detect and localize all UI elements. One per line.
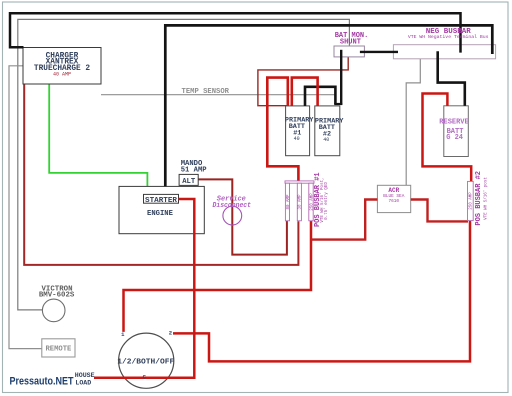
box: primary battery 1	[286, 106, 310, 156]
svg-text:BMV-602S: BMV-602S	[39, 292, 75, 300]
wire: ACR right to pos busbar 2 fuse (red)	[411, 200, 468, 222]
wire: temp sensor (gray)	[101, 94, 336, 96]
label: primary battery 1	[285, 116, 314, 137]
wire: switch terminal 2 to pos busbar 2 (red)	[173, 221, 470, 362]
wire: neg busbar to reserve battery negative (black)	[438, 51, 465, 106]
wire: shunt to battery 2 negative post (black)	[340, 50, 342, 105]
svg-text:SHUNT: SHUNT	[340, 38, 361, 46]
label: primary battery 2	[315, 117, 344, 138]
svg-text:HOUSE: HOUSE	[75, 372, 95, 379]
wire: switch terminal 1 to 250A fuse (red)	[124, 221, 312, 332]
fuse F3 250 AMP	[309, 183, 313, 221]
svg-text:7610: 7610	[389, 199, 400, 204]
svg-text:LOAD: LOAD	[75, 379, 91, 386]
fuse F1 80 AMP	[285, 183, 289, 221]
svg-text:250 AMP: 250 AMP	[469, 192, 473, 210]
box: reserve battery	[444, 106, 469, 157]
label: reserve battery	[439, 118, 468, 142]
wire: charger positive to 30A fuse (dark red)	[24, 84, 298, 265]
VICTRON monitor circle	[42, 299, 65, 322]
box: engine	[119, 186, 204, 233]
svg-text:ACR: ACR	[388, 187, 399, 194]
svg-text:1: 1	[121, 331, 125, 338]
wire: shunt to neg busbar (black)	[360, 51, 398, 53]
svg-text:40: 40	[323, 137, 329, 143]
wire: charger to REMOTE panel (gray)	[9, 66, 42, 349]
svg-text:30 AMP: 30 AMP	[299, 194, 303, 210]
label: charger	[34, 52, 90, 73]
wire: neg busbar to ACR (gray)	[406, 53, 420, 185]
wire: shunt sense to battery post (thin dark red)	[258, 57, 348, 106]
svg-text:250 AMP: 250 AMP	[310, 193, 314, 211]
svg-text:POS BUSBAR #2: POS BUSBAR #2	[475, 171, 483, 226]
box: primary battery 2	[315, 106, 340, 156]
wire: shunt sense to VICTRON monitor (gray)	[18, 19, 350, 310]
svg-text:51 AMP: 51 AMP	[181, 166, 208, 174]
box: alternator ALT	[179, 174, 198, 185]
wire: engine ground to neg busbar (black)	[165, 25, 492, 186]
svg-text:40: 40	[294, 136, 300, 142]
svg-text:ALT: ALT	[182, 178, 196, 186]
service disconnect circle	[223, 206, 242, 225]
op switch circle 1/2/BOTH/OFF	[119, 333, 174, 388]
wire: battery 1 positive loop (red)	[267, 78, 298, 181]
wire: main negative bus top (black)	[10, 13, 461, 52]
svg-text:RESERVE: RESERVE	[439, 118, 468, 126]
svg-text:ENGINE: ENGINE	[147, 210, 174, 218]
box: REMOTE panel	[42, 339, 75, 357]
svg-text:TEMP SENSOR: TEMP SENSOR	[182, 88, 230, 96]
wire: battery 1 to battery 2 negative jumper (black)	[305, 87, 335, 106]
svg-text:80 AMP: 80 AMP	[287, 194, 291, 210]
box: negative busbar	[393, 45, 495, 59]
wire: charger to engine block (green)	[49, 84, 147, 187]
node: battery 2 negative post joint	[334, 103, 342, 105]
wire: battery 2 positive jumper (red)	[292, 78, 318, 106]
box: charger CHARGER XANTREX TRUECHARGE 2	[23, 48, 101, 85]
svg-text:2: 2	[169, 329, 173, 336]
fuse F4 250 AMP pos busbar 2	[468, 181, 474, 220]
svg-text:G 24: G 24	[446, 134, 463, 142]
box: ACR Blue Sea	[377, 185, 410, 212]
svg-text:Disconnect: Disconnect	[213, 202, 252, 210]
box: battery monitor shunt	[334, 46, 364, 57]
fuse block: pos busbar 1 top bar	[285, 181, 314, 183]
svg-text:REMOTE: REMOTE	[45, 346, 72, 354]
svg-text:VTE WH 5/16' post: VTE WH 5/16' post	[483, 177, 488, 220]
wire: alternator to 80A fuse (dark red)	[198, 179, 287, 254]
box: starter	[144, 194, 179, 203]
svg-text:0.75' entry QED: 0.75' entry QED	[324, 182, 329, 220]
svg-text:1/2/BOTH/OFF: 1/2/BOTH/OFF	[117, 358, 174, 366]
wire: starter positive to switch common run (red)	[94, 199, 194, 378]
wire: reserve battery positive to fuse 2 (red)	[423, 94, 472, 182]
wire: branch to ACR left (red)	[311, 200, 377, 240]
svg-text:40 AMP: 40 AMP	[53, 72, 71, 78]
svg-text:STARTER: STARTER	[145, 197, 178, 205]
svg-text:Pressauto.NET: Pressauto.NET	[10, 376, 74, 388]
svg-text:VTE WH Negative Terminal Bus: VTE WH Negative Terminal Bus	[408, 34, 489, 40]
fuse F2 30 AMP	[297, 183, 301, 221]
